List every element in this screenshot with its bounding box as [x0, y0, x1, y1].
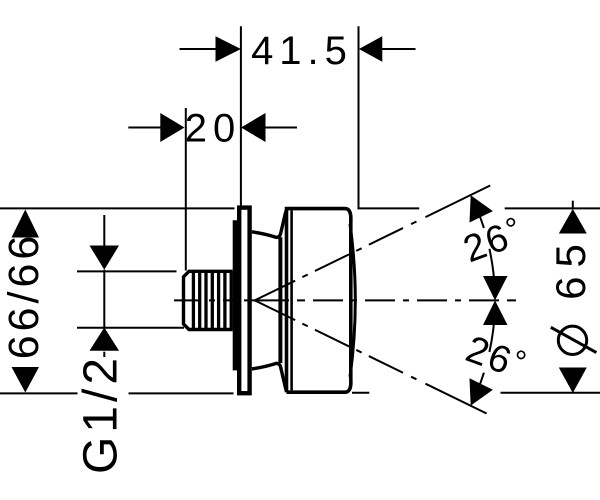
extension line G1/2 top: [77, 270, 177, 272]
neck top profile curve: [252, 209, 287, 237]
svg-text:65: 65: [547, 235, 594, 300]
angle dimension upper arc piece near bowtie: [489, 249, 495, 292]
angle text 26deg upper rotated: [457, 209, 529, 271]
extension line bottom horizontal right of body (O65 lower): [352, 392, 369, 394]
body face bulge arc: [350, 224, 355, 377]
dimension G1/2 vertical line between: [103, 270, 105, 328]
dimension 41.5 right leader: [381, 48, 415, 50]
dimension 20 left arrow: [160, 113, 184, 142]
svg-text:41.5: 41.5: [251, 29, 353, 73]
extension line bottom horizontal left segment B (66/66 lower): [129, 392, 234, 394]
spray cone lower ray dash-dot 26deg: [255, 300, 487, 413]
svg-text:66/66: 66/66: [0, 232, 48, 360]
thread hatch line 2: [198, 272, 201, 330]
angle dimension bowtie upper arrow at centerline: [483, 276, 508, 300]
extension line vertical 20-left: [185, 108, 187, 271]
angle dimension lower ray arrow: [470, 378, 493, 405]
dimension G1/2 bottom arrow: [90, 328, 120, 351]
wall plate rear ring edge: [233, 220, 238, 370]
extension line top horizontal left (66/66 upper): [0, 207, 235, 209]
dimension O65 overshoot tick top: [572, 201, 574, 209]
extension line vertical 41.5-right: [358, 26, 360, 207]
angle dimension bowtie lower arrow at centerline: [483, 300, 508, 325]
dimension 41.5 right arrow: [359, 36, 382, 62]
dimension 66/66 top arrow: [12, 210, 40, 238]
thread hatch line 6: [223, 272, 226, 330]
dimension 20 left leader: [128, 127, 161, 129]
extension line vertical shared 41.5-left / 20-right: [240, 26, 242, 206]
dimension 20 right arrow: [241, 113, 266, 142]
svg-text:G1/2: G1/2: [75, 354, 128, 474]
thread hatch line 7: [230, 272, 233, 330]
dimension G1/2 vertical line below: [103, 352, 105, 357]
thread hatch line 3: [204, 272, 207, 330]
dimension 41.5 left arrow: [216, 36, 241, 62]
diameter symbol slash: [551, 327, 597, 352]
body front face edge line: [290, 210, 293, 390]
angle dimension lower arc piece near arrow: [478, 373, 484, 389]
angle dimension upper ray arrow: [470, 195, 493, 222]
thread hatch line 1: [192, 272, 195, 330]
dimension 20 right leader: [265, 127, 298, 129]
angle dimension upper arc piece near arrow: [478, 212, 484, 228]
dimension O65 bottom arrow: [559, 368, 587, 394]
neck-body joint edge line: [278, 237, 282, 363]
svg-text:20: 20: [185, 107, 242, 151]
dimension 41.5 left leader: [180, 48, 217, 50]
wall plate rectangle: [239, 208, 249, 394]
thread hatch line 4: [211, 272, 214, 330]
threaded pipe outline with chamfers: [184, 271, 233, 329]
neck bottom profile curve: [252, 363, 287, 391]
angle dimension lower arc piece near bowtie: [489, 309, 495, 352]
dimension O65 top arrow: [559, 209, 587, 234]
body outline rounded: [287, 209, 351, 393]
diameter symbol circle: [558, 326, 586, 354]
dimension 66/66 bottom arrow: [12, 367, 40, 393]
extension line top horizontal far right (O65 upper): [505, 207, 600, 209]
centerline dash-dot: [174, 299, 516, 301]
thread hatch line 5: [217, 272, 220, 330]
dimension G1/2 vertical line upper free end: [103, 215, 105, 246]
extension line G1/2 bottom: [77, 327, 184, 329]
extension line top horizontal right of body (O65 upper): [357, 207, 419, 209]
angle text 26deg lower rotated: [460, 326, 532, 388]
extension line bottom horizontal left segment A (66/66 lower): [0, 392, 78, 394]
dimension G1/2 top arrow: [90, 246, 120, 270]
spray cone upper ray dash-dot 26deg: [255, 186, 491, 301]
extension line bottom horizontal far right (O65 lower): [501, 392, 600, 394]
